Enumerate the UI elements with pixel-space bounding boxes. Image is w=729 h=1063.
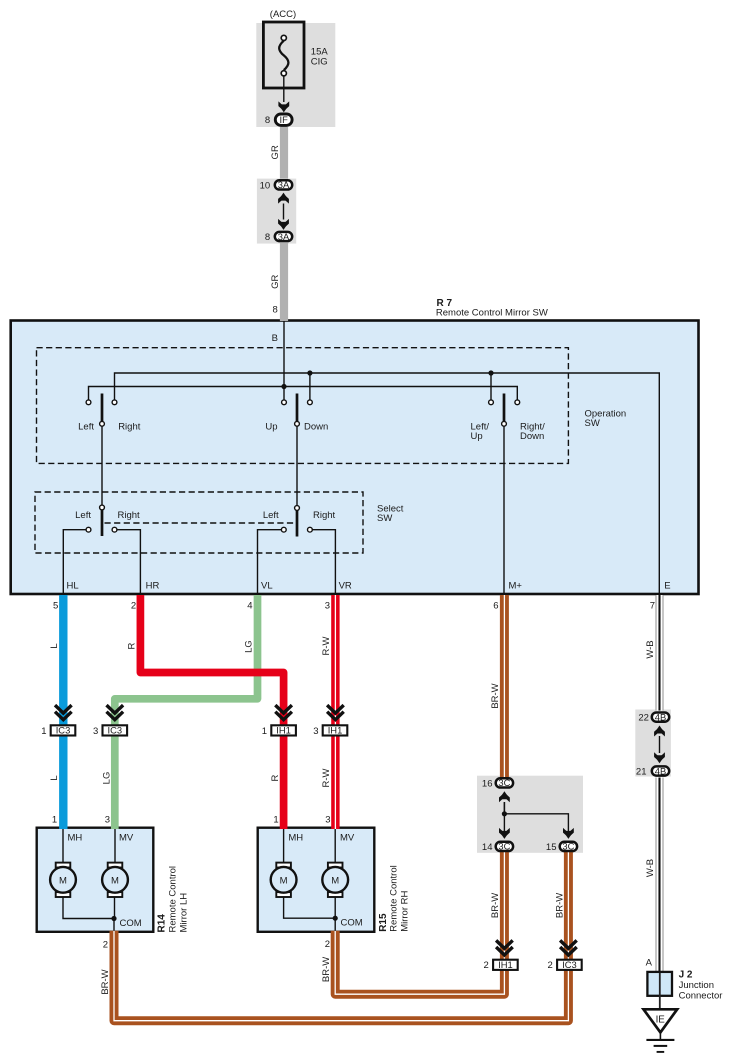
svg-text:R: R	[270, 774, 281, 781]
svg-text:IE: IE	[656, 1015, 666, 1026]
svg-text:E: E	[664, 580, 670, 591]
svg-text:COM: COM	[341, 918, 363, 929]
svg-text:SW: SW	[585, 418, 600, 429]
svg-text:R-W: R-W	[321, 768, 332, 787]
svg-text:3: 3	[93, 726, 98, 737]
svg-text:4B: 4B	[655, 765, 666, 776]
svg-text:VR: VR	[339, 581, 352, 592]
svg-text:4B: 4B	[655, 711, 666, 722]
svg-text:MV: MV	[119, 833, 134, 844]
svg-text:L: L	[49, 775, 60, 780]
svg-text:BR-W: BR-W	[321, 957, 332, 982]
svg-text:22: 22	[638, 713, 649, 724]
svg-text:3: 3	[313, 726, 318, 737]
svg-text:R: R	[127, 642, 138, 649]
svg-text:IF: IF	[280, 114, 289, 125]
svg-text:1: 1	[262, 726, 267, 737]
svg-text:3C: 3C	[498, 777, 510, 788]
svg-text:W-B: W-B	[645, 859, 656, 877]
svg-text:2: 2	[548, 960, 553, 971]
svg-text:Left: Left	[263, 510, 279, 521]
svg-text:3A: 3A	[278, 231, 290, 242]
svg-text:Mirror RH: Mirror RH	[400, 891, 411, 932]
svg-text:Left: Left	[75, 510, 91, 521]
svg-text:Right: Right	[118, 421, 141, 432]
svg-text:LG: LG	[244, 640, 255, 653]
svg-text:2: 2	[325, 939, 330, 950]
svg-text:5: 5	[53, 600, 58, 611]
svg-text:3: 3	[325, 600, 330, 611]
svg-text:M+: M+	[509, 581, 523, 592]
svg-text:IH1: IH1	[276, 725, 291, 736]
svg-text:GR: GR	[270, 145, 281, 159]
svg-text:IC3: IC3	[56, 725, 71, 736]
svg-text:3C: 3C	[562, 841, 574, 852]
svg-text:MH: MH	[68, 833, 83, 844]
svg-text:MH: MH	[288, 833, 303, 844]
svg-text:15: 15	[546, 842, 557, 853]
svg-text:7: 7	[650, 600, 655, 611]
svg-text:J 2: J 2	[679, 970, 693, 981]
svg-text:2: 2	[484, 960, 489, 971]
svg-text:(ACC): (ACC)	[270, 9, 296, 20]
svg-text:21: 21	[636, 766, 647, 777]
svg-text:Up: Up	[265, 421, 277, 432]
svg-text:Down: Down	[304, 421, 328, 432]
svg-text:Remote Control: Remote Control	[389, 865, 400, 932]
svg-text:R-W: R-W	[321, 636, 332, 655]
svg-text:B: B	[272, 333, 278, 344]
svg-text:3: 3	[325, 815, 330, 826]
svg-text:3C: 3C	[498, 841, 510, 852]
svg-text:1: 1	[273, 815, 278, 826]
svg-text:SW: SW	[377, 513, 392, 524]
svg-text:BR-W: BR-W	[490, 683, 501, 708]
svg-text:Connector: Connector	[679, 991, 723, 1002]
svg-text:8: 8	[265, 115, 270, 126]
svg-text:1: 1	[41, 726, 46, 737]
svg-text:GR: GR	[270, 274, 281, 288]
svg-text:HR: HR	[146, 581, 160, 592]
svg-text:4: 4	[247, 600, 252, 611]
svg-text:R15: R15	[378, 913, 389, 932]
svg-text:16: 16	[482, 778, 493, 789]
svg-text:Mirror LH: Mirror LH	[179, 893, 190, 933]
svg-text:14: 14	[482, 842, 493, 853]
svg-text:Left: Left	[78, 421, 94, 432]
svg-text:Right: Right	[313, 510, 336, 521]
svg-text:8: 8	[265, 232, 270, 243]
svg-text:2: 2	[131, 600, 136, 611]
svg-text:COM: COM	[120, 918, 142, 929]
svg-text:10: 10	[260, 180, 271, 191]
svg-text:L: L	[49, 643, 60, 648]
svg-text:BR-W: BR-W	[490, 893, 501, 918]
svg-text:6: 6	[493, 600, 498, 611]
svg-text:IC3: IC3	[108, 725, 123, 736]
svg-text:Remote Control: Remote Control	[168, 866, 179, 933]
svg-text:Down: Down	[520, 431, 544, 442]
svg-text:3: 3	[105, 815, 110, 826]
svg-text:BR-W: BR-W	[100, 969, 111, 994]
svg-text:IH1: IH1	[498, 959, 513, 970]
svg-text:MV: MV	[340, 833, 355, 844]
svg-text:HL: HL	[67, 581, 79, 592]
svg-text:IC3: IC3	[562, 959, 577, 970]
svg-text:3A: 3A	[278, 179, 290, 190]
svg-text:Remote Control Mirror SW: Remote Control Mirror SW	[436, 307, 548, 318]
svg-text:VL: VL	[261, 581, 273, 592]
svg-text:Up: Up	[471, 431, 483, 442]
svg-text:R14: R14	[157, 914, 168, 933]
svg-text:2: 2	[103, 939, 108, 950]
svg-text:A: A	[646, 958, 653, 969]
svg-text:LG: LG	[102, 772, 113, 785]
svg-text:CIG: CIG	[311, 56, 328, 67]
svg-text:8: 8	[273, 305, 278, 316]
svg-text:1: 1	[52, 815, 57, 826]
svg-text:Junction: Junction	[679, 980, 714, 991]
svg-text:Right: Right	[118, 510, 141, 521]
svg-text:IH1: IH1	[328, 725, 343, 736]
svg-text:BR-W: BR-W	[554, 893, 565, 918]
svg-text:W-B: W-B	[645, 640, 656, 658]
